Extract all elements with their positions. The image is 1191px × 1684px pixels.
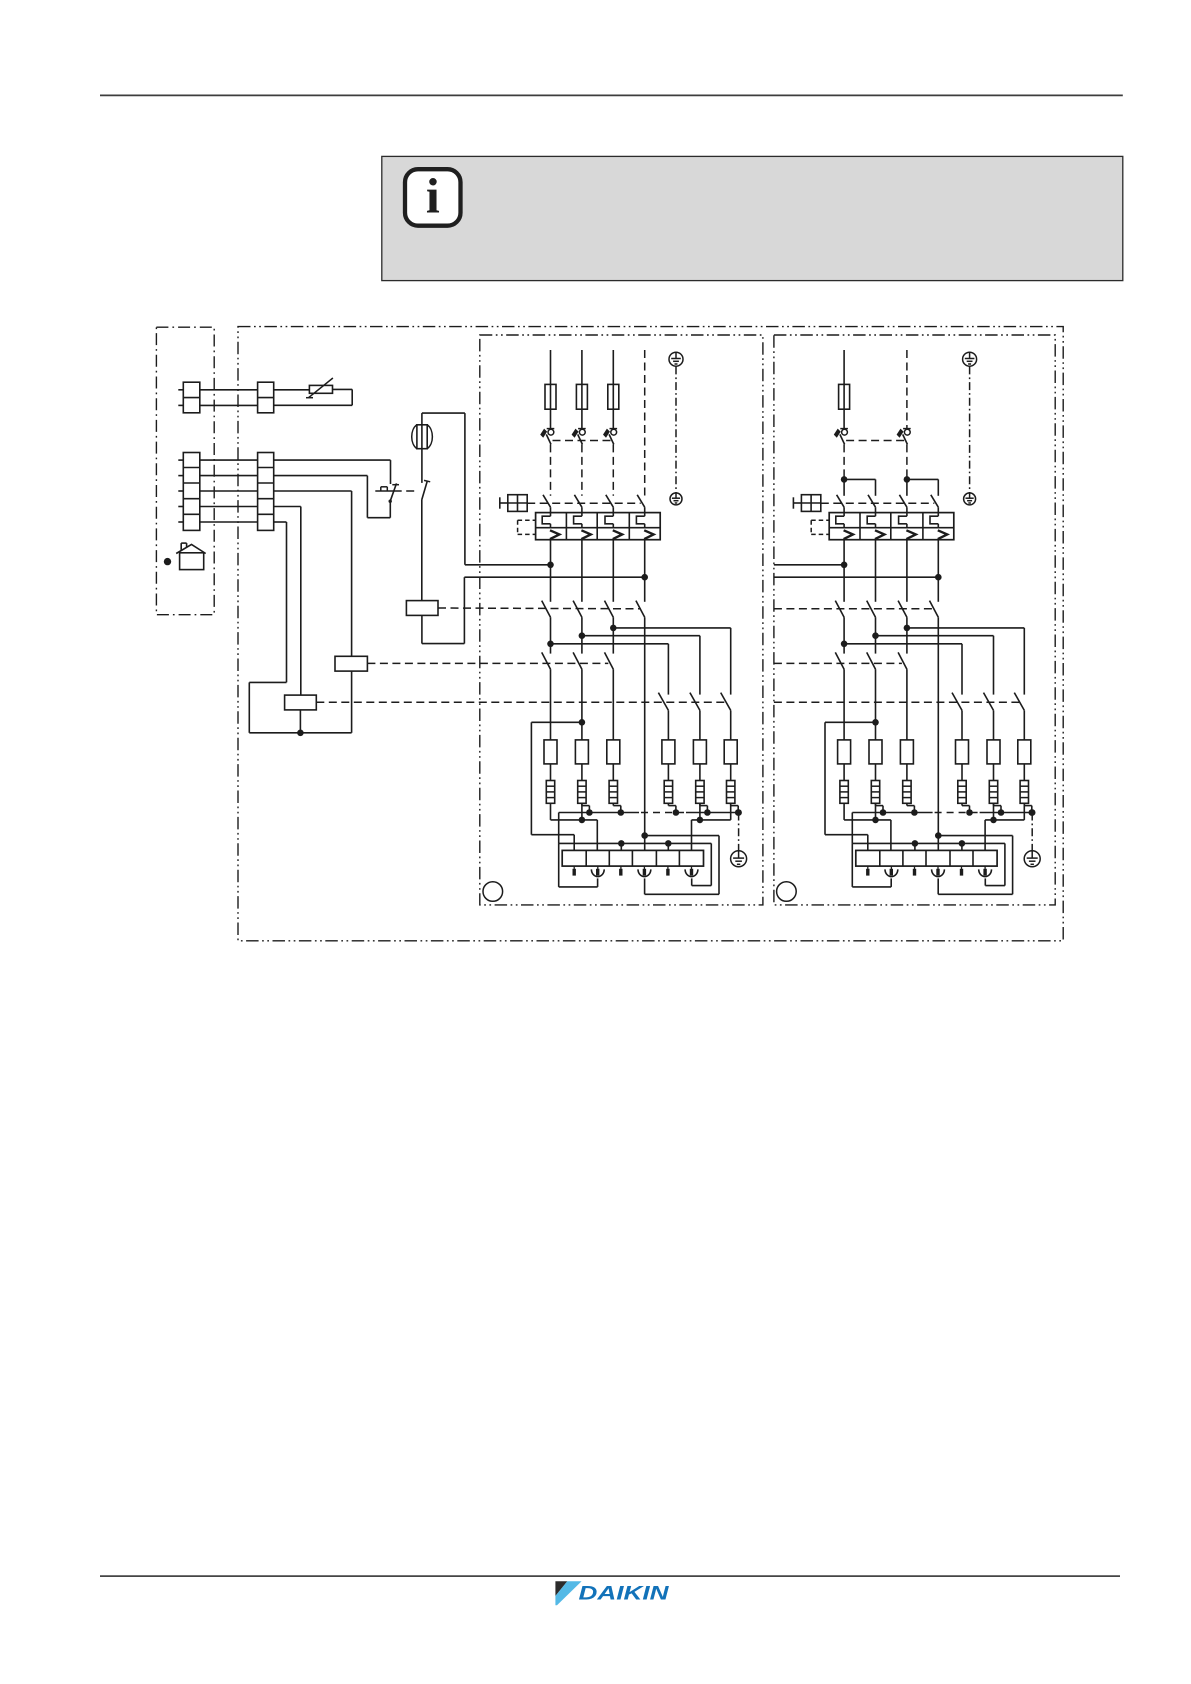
lines L2,L3 below block (unit 1): [581, 540, 583, 602]
K1M contact 2 (unit 1): [573, 601, 582, 618]
K2M dashed into unit 2: [774, 662, 902, 664]
thermistor return wire: [274, 389, 353, 405]
K2M contact 1 (unit 1): [542, 652, 551, 669]
coil return bus (unit 2): [852, 812, 1032, 814]
connector plug symbol (unit 1): [500, 495, 527, 512]
disconnector pole 3 (unit 1): [603, 429, 617, 445]
coil elbow at x=668: [668, 803, 676, 812]
unit 2 marker circle: [777, 882, 797, 902]
fuse F3U (unit 1): [608, 384, 619, 409]
K1M contact 3 (unit 1): [605, 601, 614, 618]
row1 link dashed (unit 2): [821, 502, 935, 504]
disconnector link (dashed): [553, 440, 612, 442]
junction K3M return: [297, 730, 304, 737]
coil elbow at x=731: [731, 803, 739, 812]
terminal pin 1 (unit 1): [573, 866, 576, 876]
K1M control dashed line: [438, 607, 641, 610]
heater coil 2 (unit 1): [578, 781, 586, 804]
line L1 below block (unit 1): [550, 540, 552, 602]
mechanical link (dashed): [394, 490, 418, 492]
earth terminal bottom (unit 1): [731, 851, 747, 867]
branch node L2: [904, 476, 911, 483]
disconnector pole 1 (unit 2): [834, 429, 848, 445]
K3M contact 1 (unit 1): [658, 693, 668, 711]
supply line L1 (unit 1): [550, 350, 552, 384]
coil elbow at x=907: [907, 803, 915, 812]
line L4 below block (unit 2): [937, 540, 939, 602]
terminal pin 5 (unit 2): [960, 866, 963, 876]
DAIKIN logo flag black: [555, 1581, 567, 1596]
terminal pin 2 (unit 1): [591, 866, 604, 877]
wire below disconnector pole 3: [612, 444, 614, 495]
heater element 4 (unit 2): [956, 740, 969, 764]
K2M contact 1 (unit 2): [835, 652, 844, 669]
K1M contact 2 (unit 2): [867, 601, 876, 618]
neutral line L4 (unit 1, dashed): [644, 350, 646, 496]
terminal pin 3 (unit 1): [619, 866, 622, 876]
coil return bus (unit 1): [559, 812, 739, 814]
K2M contact 2 (unit 1): [573, 652, 582, 669]
feed wire L1 (unit 2): [774, 564, 844, 566]
node L2 lower (unit 1): [579, 719, 586, 726]
coil elbow at x=876: [876, 803, 884, 812]
svg-text:DAIKIN: DAIKIN: [579, 1583, 670, 1605]
PE line (unit 2): [969, 366, 971, 492]
terminal pin 1 (unit 2): [866, 866, 869, 876]
heater element 1 (unit 2): [838, 740, 851, 764]
branch wire to heater 2-2 (unit 2): [876, 635, 994, 637]
terminal pin 4 (unit 1): [638, 866, 651, 877]
supply line L3 (unit 1): [612, 350, 614, 384]
K2M coil bottom wire: [351, 671, 353, 733]
house symbol (field supply): [176, 543, 206, 570]
wire row5 common return: [249, 522, 351, 733]
terminal pin 5 (unit 1): [666, 866, 669, 876]
disconnector pole 1 (unit 1): [540, 429, 554, 445]
pin2 loop (unit 1): [559, 843, 598, 887]
terminal pin 2 (unit 2): [885, 866, 898, 877]
coil elbow at x=1024: [1024, 803, 1032, 812]
supply line L2 (unit 1): [581, 350, 583, 384]
terminal block X1 (2 poles, field side): [178, 382, 200, 413]
heater element 3 (unit 2): [900, 740, 913, 764]
overcurrent relay block (unit 1): [536, 513, 661, 540]
node L3 branch (unit 1): [612, 617, 614, 653]
pressure switch return wire: [274, 476, 391, 518]
outdoor unit outer box: [238, 327, 1063, 941]
node L4 feed (unit 1): [641, 574, 648, 581]
K3M coil bottom wire: [299, 710, 301, 733]
branch wire to heater 2-3 (unit 1): [613, 627, 730, 629]
feed wire L4 (unit 2): [774, 576, 938, 578]
line L4 to terminal 4 (unit 1): [644, 617, 646, 850]
K2M contact 3 (unit 2): [898, 652, 907, 669]
lines L2,L3 below block (unit 2): [875, 540, 877, 602]
node L1 branch (unit 2): [843, 617, 845, 653]
line L1 to heater 1-1 (unit 1): [550, 669, 552, 740]
heater element 6 (unit 1): [724, 740, 737, 764]
disconnector pole 2 (unit 1): [572, 429, 586, 445]
wire below pole 1: [843, 444, 845, 479]
terminal pin 6 (unit 1): [685, 866, 698, 876]
line L4 to terminal 4 (unit 2): [937, 617, 939, 850]
node L2 branch (unit 1): [581, 617, 583, 653]
node L2 branch (unit 2): [875, 617, 877, 653]
terminal strip X10 (unit 1): [562, 850, 703, 866]
K3M contact 2 (unit 2): [984, 693, 994, 711]
bus1 left drop (unit 1): [558, 813, 560, 844]
information note box: [382, 156, 1123, 280]
branch wire to heater 2-1 (unit 1): [551, 643, 669, 645]
top rule: [100, 94, 1123, 96]
K3M contact 2 (unit 1): [690, 693, 700, 711]
pin6 loop (unit 2): [962, 843, 1005, 885]
coil 6 drop (unit 1): [730, 803, 732, 820]
wire below disconnector pole 2: [581, 444, 583, 495]
branch wire to heater 2-3 (unit 2): [907, 627, 1024, 629]
heater element 1 (unit 1): [544, 740, 557, 764]
heater coil 5 (unit 2): [989, 781, 997, 804]
node L3 branch (unit 2): [906, 617, 908, 653]
branch wire to heater 2-1 (unit 2): [844, 643, 962, 645]
node L1 branch (unit 1): [550, 617, 552, 653]
wire to terminals 3 and 5 (unit 2): [852, 842, 962, 844]
heater element 2 (unit 2): [869, 740, 882, 764]
wire pair to unit terminal block: [200, 389, 258, 391]
contact under fuse (switch): [422, 449, 431, 601]
branch wires: [844, 478, 875, 480]
wire L2 to terminal 1 (unit 2): [825, 722, 876, 850]
wire to terminals 3 and 5 (unit 1): [559, 842, 669, 844]
supply line L1 (unit 2): [843, 350, 845, 384]
bus2 to terminal 2 (unit 1): [551, 820, 598, 851]
wire row4 to contactor coil K3M: [274, 507, 301, 696]
main contact 1 row1 (unit 2): [837, 495, 845, 507]
contactor coil K1M: [406, 601, 438, 616]
heater coil 3 (unit 2): [903, 781, 911, 804]
K1M contact 3 (unit 2): [898, 601, 907, 618]
bottom rule: [100, 1575, 1120, 1577]
L4 loop to pin4 (unit 1): [645, 836, 719, 895]
coil elbow at x=700: [700, 803, 708, 812]
K3M control dashed line: [316, 701, 725, 703]
coil elbow at x=994: [994, 803, 1002, 812]
coil 5 drop (unit 1): [699, 803, 701, 820]
terminal pin 6 (unit 2): [979, 866, 992, 877]
wire from fuse top to unit 1 line L1: [422, 413, 551, 565]
coil elbow at x=962: [962, 803, 970, 812]
coil 1 drop (unit 1): [550, 803, 552, 820]
terminal pin 4 (unit 2): [932, 866, 945, 877]
bus2b to terminal 6 (unit 2): [985, 820, 1024, 851]
K3M contact 3 (unit 1): [721, 693, 731, 711]
K3M contact 3 (unit 2): [1014, 693, 1024, 711]
node marker (black dot): [164, 558, 171, 565]
pin2 loop (unit 2): [852, 843, 891, 887]
wire to thermistor: [274, 389, 310, 391]
main contact 1 row1 (unit 1): [543, 495, 551, 507]
bus2b to terminal 6 (unit 1): [692, 820, 731, 851]
overload trip dashed elbow (unit 1): [518, 520, 536, 534]
L4 loop to pin4 (unit 2): [938, 836, 1012, 895]
main contact 4 row1 (unit 1): [637, 495, 645, 507]
fuse F2U (unit 1): [576, 384, 587, 409]
node L4 feed (unit 2): [935, 574, 942, 581]
heater element 6 (unit 2): [1018, 740, 1031, 764]
K1M contact 4 (unit 2): [930, 601, 939, 618]
heater element 5 (unit 1): [693, 740, 706, 764]
thermistor R1T: [306, 378, 333, 398]
wire row3 to contactor coil K2M: [274, 491, 352, 656]
coil 6 drop (unit 2): [1023, 803, 1025, 820]
K1M contact 1 (unit 1): [542, 601, 551, 618]
overload trip dashed elbow (unit 2): [811, 520, 829, 534]
K2M contact 3 (unit 1): [605, 652, 614, 669]
supply line L2 (unit 2, dashed): [906, 350, 908, 428]
wire bundle to unit block: [200, 460, 258, 522]
terminal block X2 (2 poles, unit side): [258, 382, 274, 413]
contactor coil K3M: [285, 695, 317, 710]
pressure switch S1PH: [375, 483, 399, 503]
bus2 to terminal 2 (unit 2): [844, 820, 891, 851]
contactor coil K2M: [335, 656, 367, 671]
svg-text:i: i: [426, 168, 440, 224]
heater coil 3 (unit 1): [609, 781, 617, 804]
earth terminal top (unit 1): [669, 352, 683, 366]
fuse F1U (backup fuse): [412, 425, 433, 449]
K1M coil return wire to line L4: [422, 577, 645, 643]
node L1 feed (unit 2): [841, 562, 848, 569]
node L2 lower (unit 2): [872, 719, 879, 726]
line L4 below block (unit 1): [644, 540, 646, 602]
wire below disconnector pole 1: [550, 444, 552, 495]
coil 2 drop (unit 1): [581, 803, 583, 820]
coil 5 drop (unit 2): [993, 803, 995, 820]
K3M contact 1 (unit 2): [952, 693, 962, 711]
terminal block X3 (5 poles, field side): [178, 453, 200, 531]
overcurrent relay block (unit 2): [829, 513, 954, 540]
heater coil 4 (unit 2): [958, 781, 966, 804]
coil 1 drop (unit 2): [843, 803, 845, 820]
earth terminal mid (unit 1): [670, 493, 682, 505]
field wiring box (left dash-dot box): [156, 327, 214, 615]
K2M control dashed line: [367, 662, 608, 664]
terminal pin 3 (unit 2): [913, 866, 916, 876]
earth terminal top (unit 2): [963, 352, 977, 366]
K3M dashed into unit 2: [774, 701, 1019, 703]
main contact 2 row1 (unit 2): [868, 495, 876, 507]
main contact 2 row1 (unit 1): [574, 495, 582, 507]
PE drop (unit 1): [735, 809, 742, 816]
main contact 4 row1 (unit 2): [931, 495, 939, 507]
coil elbow at x=613: [613, 803, 621, 812]
PE line (unit 1): [675, 366, 677, 492]
heater element 5 (unit 2): [987, 740, 1000, 764]
branch node L1: [841, 476, 848, 483]
unit 1 marker circle: [483, 882, 503, 902]
heater coil 5 (unit 1): [696, 781, 704, 804]
line L2 to heater 1-2 (unit 1): [581, 669, 583, 740]
disconnector link (dashed): [846, 440, 905, 442]
heater element 4 (unit 1): [662, 740, 675, 764]
PE drop (unit 2): [1029, 809, 1036, 816]
unit 2 box: [774, 335, 1055, 905]
coil elbow at x=582: [582, 803, 590, 812]
line L1 below block (unit 2): [843, 540, 845, 602]
K1M dashed into unit 2: [774, 608, 934, 610]
info "i" icon: [405, 169, 461, 226]
wire row1 to safety pressure switch: [274, 460, 391, 484]
earth terminal mid (unit 2): [964, 493, 976, 505]
earth terminal bottom (unit 2): [1024, 851, 1040, 867]
line L3 to heater 1-3 (unit 2): [906, 669, 908, 740]
heater coil 6 (unit 2): [1020, 781, 1028, 804]
coil 2 drop (unit 2): [875, 803, 877, 820]
heater coil 6 (unit 1): [727, 781, 735, 804]
heater element 3 (unit 1): [607, 740, 620, 764]
terminal block X4 (5 poles, unit side): [258, 453, 274, 531]
unit 1 box: [480, 335, 763, 905]
fuse F1U (unit 1): [545, 384, 556, 409]
pin6 loop (unit 1): [668, 843, 711, 885]
heater coil 1 (unit 2): [840, 781, 848, 804]
heater element 2 (unit 1): [575, 740, 588, 764]
heater coil 1 (unit 1): [546, 781, 554, 804]
main contact 3 row1 (unit 1): [606, 495, 614, 507]
node L1 feed (unit 1): [547, 562, 554, 569]
row1 link dashed (unit 1): [527, 502, 641, 504]
line L1 to heater 1-1 (unit 2): [843, 669, 845, 740]
heater coil 4 (unit 1): [664, 781, 672, 804]
branch wire to heater 2-2 (unit 1): [582, 635, 700, 637]
terminal strip X10 (unit 2): [856, 850, 997, 866]
bus1 left drop (unit 2): [851, 813, 853, 844]
fuse F1U (unit 2): [839, 384, 850, 409]
disconnector pole 2 (unit 2): [897, 429, 911, 445]
DAIKIN logo flag blue: [555, 1581, 581, 1605]
K1M contact 4 (unit 1): [636, 601, 645, 618]
K2M contact 2 (unit 2): [867, 652, 876, 669]
K1M contact 1 (unit 2): [835, 601, 844, 618]
wire L2 to terminal 1 (unit 1): [531, 722, 582, 850]
heater coil 2 (unit 2): [871, 781, 879, 804]
connector plug symbol (unit 2): [793, 495, 820, 512]
main contact 3 row1 (unit 2): [899, 495, 907, 507]
line L2 to heater 1-2 (unit 2): [875, 669, 877, 740]
line L3 to heater 1-3 (unit 1): [612, 669, 614, 740]
